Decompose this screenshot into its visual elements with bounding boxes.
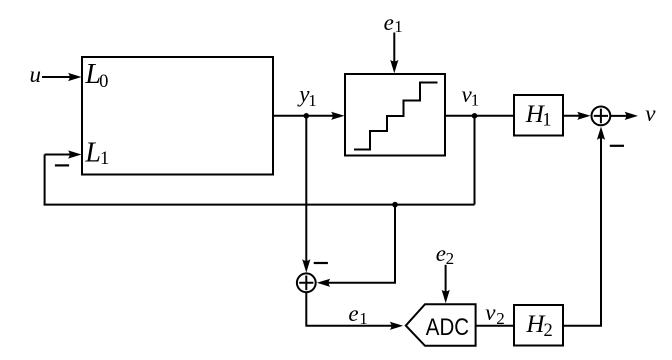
summer S1 (output adder) [592,107,611,126]
svg-text:L: L [84,138,101,169]
wire H2 output up into summer [563,136,601,326]
wire long feedback horizontal [44,204,475,206]
quantizer staircase curve [354,83,438,150]
wire y1 branch down to subtractor [305,116,307,264]
wire v1 (quantizer to H1) [445,115,514,117]
wire summer to v output [610,115,629,117]
svg-text:2: 2 [446,249,455,268]
wire y1 (L output to quantizer) [273,115,337,117]
wire subtractor output to ADC [306,292,397,326]
node y1 junction dot [304,113,310,119]
wire e1 into quantizer top [393,33,395,66]
ADC block (pentagon) [406,304,476,346]
minus sign at L1 input [55,164,69,166]
svg-text:2: 2 [496,309,505,328]
svg-text:1: 1 [308,91,317,110]
wire H1 to summer [563,115,583,117]
svg-text:e: e [384,10,394,35]
node v1 junction dot [472,113,478,119]
block L (loop filter L0/L1) [82,57,273,175]
svg-text:v: v [485,300,496,325]
minus sign at summer S1 [610,145,624,147]
svg-text:e: e [348,301,358,326]
block H2 [514,305,563,346]
svg-text:v: v [645,101,656,126]
block H1 [514,95,563,136]
svg-text:1: 1 [359,309,368,328]
wire u input [42,76,74,78]
svg-text:1: 1 [394,17,403,36]
svg-text:1: 1 [542,110,551,130]
svg-text:0: 0 [99,72,108,92]
wire e2 into ADC top [445,265,447,295]
svg-text:1: 1 [100,149,109,169]
svg-text:e: e [436,241,446,266]
svg-text:ADC: ADC [426,314,469,341]
node feedback junction dot [392,202,398,208]
wire ADC to H2 [476,325,514,327]
svg-text:2: 2 [544,321,553,341]
svg-text:1: 1 [471,90,480,109]
subtractor S2 (lower summer) [297,273,316,292]
svg-text:u: u [30,62,42,87]
wire left vertical riser [44,155,46,206]
minus sign at subtractor S2 [314,262,328,264]
wire v1 branch down [474,116,476,205]
quantizer block [345,74,445,156]
wire branch from feedback node down and left into subtractor [327,205,395,283]
wire L1 feedback arrow [45,154,74,156]
